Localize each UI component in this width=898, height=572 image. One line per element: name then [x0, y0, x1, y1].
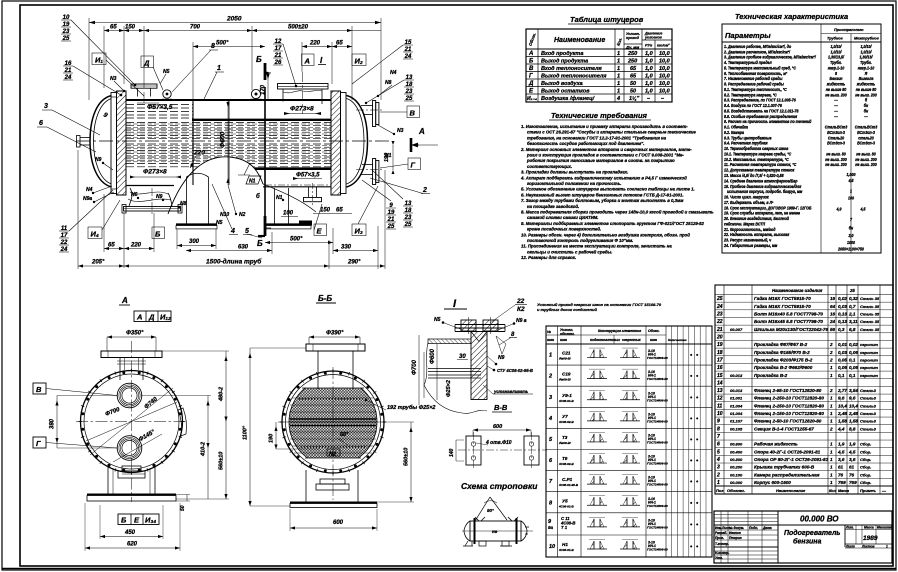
- svg-text:50: 50: [630, 89, 636, 95]
- svg-text:N1: N1: [249, 179, 256, 185]
- right top stacks: [404, 40, 412, 60]
- svg-text:Разраб.: Разраб.: [715, 531, 727, 535]
- svg-text:Гайка М16Х ГОСТ5915-70: Гайка М16Х ГОСТ5915-70: [754, 303, 811, 309]
- svg-text:Сталь3: Сталь3: [860, 426, 877, 431]
- left elliptical head: [90, 96, 112, 188]
- svg-text:19: 19: [717, 342, 723, 348]
- svg-text:00.200: 00.200: [730, 465, 743, 470]
- svg-text:1100°: 1100°: [243, 425, 249, 440]
- svg-text:3,6: 3,6: [849, 457, 856, 462]
- tube bundle upper rows: [126, 105, 193, 119]
- section line B through vessel (thick): [264, 87, 266, 216]
- dim F600 vertical inside: [227, 100, 229, 185]
- svg-text:1,9: 1,9: [849, 442, 856, 447]
- svg-text:0,1: 0,1: [849, 357, 856, 362]
- svg-text:Сталь3: Сталь3: [860, 403, 877, 408]
- svg-text:Технические требования: Технические требования: [551, 111, 648, 120]
- svg-text:Наименование: Наименование: [776, 488, 806, 493]
- svg-text:Количество: Количество: [668, 338, 687, 342]
- svg-text:паронит: паронит: [860, 357, 878, 362]
- svg-text:4С08-01-95-В: 4С08-01-95-В: [558, 483, 579, 487]
- svg-text:N1: N1: [385, 153, 392, 159]
- svg-text:Поз: Поз: [716, 488, 723, 493]
- svg-text:Д: Д: [528, 81, 534, 87]
- svg-text:3: 3: [717, 465, 720, 471]
- thick bottom partition line: [253, 167, 331, 170]
- svg-text:600: 600: [333, 520, 344, 526]
- weld table data rows: [548, 348, 699, 552]
- svg-text:8. Масса подгревателя сборки п: 8. Масса подгревателя сборки проводить ч…: [521, 210, 714, 215]
- svg-text:/№09-В/: /№09-В/: [558, 357, 572, 361]
- svg-text:56: 56: [830, 327, 836, 332]
- svg-text:Ду, мм: Ду, мм: [625, 45, 639, 50]
- svg-text:4: 4: [616, 96, 620, 102]
- svg-text:Техническая характеристика: Техническая характеристика: [735, 12, 848, 21]
- svg-text:Параметры: Параметры: [725, 31, 771, 40]
- svg-text:У9-1: У9-1: [562, 393, 572, 398]
- svg-text:1: 1: [830, 457, 833, 462]
- svg-text:21: 21: [716, 327, 723, 333]
- thick pass partition line: [192, 119, 331, 121]
- svg-text:С19: С19: [562, 372, 571, 377]
- svg-text:620: 620: [127, 542, 138, 548]
- G box right: [408, 158, 421, 170]
- svg-text:Болт М16х45 5.8 ГОСТ7798-70: Болт М16х45 5.8 ГОСТ7798-70: [754, 319, 823, 324]
- svg-text:на площадке заводской.: на площадке заводской.: [527, 204, 579, 209]
- view V-V (support pads): [449, 424, 547, 469]
- svg-text:паронит: паронит: [860, 365, 878, 370]
- nozzle A (big top-right): [282, 89, 284, 102]
- svg-text:Выход теплоносителя: Выход теплоносителя: [541, 74, 607, 80]
- svg-text:00.013: 00.013: [730, 388, 743, 393]
- svg-text:1: 1: [617, 81, 620, 87]
- svg-text:ВСт3сп-3: ВСт3сп-3: [857, 140, 875, 145]
- svg-text:1: 1: [830, 365, 833, 370]
- dim 300 under left support: [177, 245, 216, 247]
- svg-text:1: 1: [830, 449, 833, 454]
- svg-text:робония покрытия наносимые мат: робония покрытия наносимые материалов в …: [526, 158, 675, 163]
- funnel inside: [471, 332, 487, 342]
- svg-text:24: 24: [829, 319, 836, 324]
- svg-text:192 трубы Φ25×2: 192 трубы Φ25×2: [387, 404, 435, 411]
- svg-text:30: 30: [459, 354, 466, 360]
- svg-text:условное: условное: [644, 36, 662, 40]
- svg-text:Выход воздуха: Выход воздуха: [541, 81, 583, 87]
- svg-text:0,06: 0,06: [838, 365, 847, 370]
- svg-text:4: 4: [716, 457, 720, 463]
- svg-text:N6: N6: [131, 192, 138, 198]
- svg-text:N2: N2: [239, 212, 246, 218]
- svg-text:769: 769: [849, 480, 857, 485]
- tube lines left: [428, 369, 481, 379]
- svg-text:18: 18: [717, 350, 723, 356]
- svg-text:N5: N5: [163, 69, 170, 75]
- svg-text:А: А: [418, 127, 425, 136]
- right saddle support: [274, 188, 276, 224]
- main circle rings: [81, 371, 183, 473]
- svg-text:4,5: 4,5: [837, 449, 845, 454]
- svg-text:Таблица штуцеров: Таблица штуцеров: [570, 15, 644, 24]
- svg-text:ГОСТ14806-80: ГОСТ14806-80: [647, 419, 668, 423]
- svg-text:11: 11: [717, 403, 722, 409]
- svg-text:поставочной контроль подруглив: поставочной контроль подругливания Ф 10"…: [527, 238, 633, 243]
- svg-text:4. Аппарат подбергать гидравли: 4. Аппарат подбергать гидравлическому ис…: [520, 175, 687, 180]
- svg-text:№ докум.: № докум.: [729, 526, 744, 530]
- svg-text:Болт М16х40 5.8 ГОСТ7798-70: Болт М16х40 5.8 ГОСТ7798-70: [754, 312, 823, 317]
- thick bottom sheet line: [2, 568, 896, 570]
- side tab: [178, 408, 186, 436]
- svg-text:0,02: 0,02: [849, 342, 858, 347]
- svg-text:4С08-02-В: 4С08-02-В: [558, 462, 575, 466]
- bolt ticks ring: [78, 369, 184, 475]
- svg-text:шва: шва: [547, 338, 554, 342]
- svg-text:2,48: 2,48: [837, 411, 847, 416]
- N1 parallelogram label: [246, 176, 261, 184]
- bolt heads hatched: [461, 320, 476, 331]
- svg-text:9. Материалы подбираемых элеме: 9. Материалы подбираемых элементов стопо…: [521, 221, 705, 226]
- svg-text:220: 220: [309, 41, 321, 47]
- svg-text:Межтрубное: Межтрубное: [854, 37, 879, 41]
- svg-text:22: 22: [716, 319, 723, 325]
- svg-text:410-2: 410-2: [201, 442, 207, 457]
- svg-text:Сталь3: Сталь3: [860, 411, 877, 416]
- svg-text:Прокладка Ф87/Ф57 В-2: Прокладка Ф87/Ф57 В-2: [754, 342, 808, 347]
- diagonal diameter leaders: [90, 388, 173, 455]
- dim 2050 top: [89, 22, 381, 24]
- svg-text:65: 65: [336, 41, 343, 47]
- svg-text:Т.контр.: Т.контр.: [715, 542, 729, 546]
- svg-text:2: 2: [422, 187, 427, 194]
- svg-text:А: А: [136, 313, 142, 322]
- svg-text:2: 2: [829, 357, 833, 362]
- svg-text:8,8: 8,8: [849, 426, 856, 431]
- svg-text:17: 17: [717, 357, 723, 363]
- svg-text:Сталь3: Сталь3: [860, 396, 877, 401]
- svg-text:шва: шва: [650, 338, 657, 342]
- svg-text:4,4: 4,4: [837, 426, 845, 431]
- svg-text:500°: 500°: [290, 237, 303, 243]
- svg-text:Сталь 35: Сталь 35: [860, 312, 880, 317]
- svg-text:Сталь3: Сталь3: [860, 388, 877, 393]
- svg-text:1,58: 1,58: [838, 419, 847, 424]
- svg-text:Д: Д: [148, 313, 155, 322]
- svg-text:140: 140: [449, 448, 455, 457]
- svg-text:0,05: 0,05: [838, 357, 847, 362]
- center cross: [76, 421, 187, 423]
- svg-text:И₂: И₂: [355, 57, 363, 66]
- svg-text:Обозн.: Обозн.: [648, 329, 660, 333]
- B E I34 box: [118, 514, 159, 525]
- svg-text:И₁₋₄: И₁₋₄: [527, 96, 537, 102]
- svg-text:Лит.: Лит.: [845, 526, 854, 530]
- svg-text:1,0: 1,0: [645, 59, 653, 65]
- svg-text:Сбор.: Сбор.: [860, 465, 871, 470]
- svg-text:Вход теплоносителя: Вход теплоносителя: [541, 66, 603, 72]
- svg-text:2050×1100×750: 2050×1100×750: [837, 246, 865, 251]
- technical characteristics table: [722, 12, 881, 253]
- svg-text:13: 13: [717, 388, 723, 394]
- svg-text:Наименование изделия: Наименование изделия: [772, 288, 823, 293]
- svg-text:4: 4: [230, 228, 235, 235]
- dim 205 left / 290 right: [78, 265, 124, 267]
- svg-text:1: 1: [830, 442, 833, 447]
- lower nozzle circles: [117, 436, 142, 461]
- svg-text:1: 1: [217, 65, 221, 72]
- dim row3: 500 220 65: [193, 46, 265, 48]
- svg-text:ГОСТ14806-80: ГОСТ14806-80: [647, 548, 668, 552]
- revision smudges: [715, 526, 772, 560]
- svg-text:—: —: [863, 114, 868, 119]
- bottom-left reducer nozzle: [129, 188, 132, 206]
- svg-text:4,5: 4,5: [860, 206, 867, 211]
- svg-text:Сбор.: Сбор.: [860, 457, 871, 462]
- dim 1100 left: [249, 348, 251, 506]
- svg-text:769: 769: [838, 480, 846, 485]
- dim 380 left: [56, 396, 58, 449]
- svg-text:ГОСТ14806-80: ГОСТ14806-80: [647, 462, 668, 466]
- svg-text:Н1: Н1: [562, 542, 568, 547]
- svg-text:00.105: 00.105: [730, 426, 743, 431]
- dim 560+-10 right: [410, 422, 412, 502]
- svg-text:N8: N8: [385, 80, 392, 86]
- middle dark band: [290, 418, 376, 420]
- nozzle table (Tablica shtucerov): [526, 15, 672, 102]
- svg-text:Пространство: Пространство: [834, 28, 864, 32]
- svg-text:61: 61: [849, 465, 855, 470]
- svg-text:00.000: 00.000: [730, 480, 743, 485]
- svg-text:N9: N9: [95, 157, 102, 163]
- lifting eye 2: [251, 89, 260, 98]
- svg-text:0,32: 0,32: [849, 296, 858, 301]
- svg-text:Φ57×3,5: Φ57×3,5: [147, 104, 173, 111]
- svg-text:А: А: [528, 51, 533, 57]
- title block (stamp): [714, 511, 894, 563]
- shell bottom: [126, 185, 174, 187]
- svg-text:В: В: [36, 385, 42, 394]
- svg-text:N4: N4: [86, 187, 93, 193]
- svg-text:Вход продукта: Вход продукта: [541, 51, 583, 57]
- top flange: [101, 351, 162, 358]
- svg-text:65: 65: [110, 25, 117, 31]
- svg-text:700: 700: [190, 25, 201, 31]
- svg-text:N5: N5: [434, 317, 441, 323]
- svg-text:50: 50: [180, 505, 186, 511]
- svg-text:380: 380: [50, 418, 56, 429]
- svg-text:16: 16: [830, 296, 836, 301]
- svg-text:–: –: [647, 96, 650, 102]
- svg-text:10,4: 10,4: [849, 403, 858, 408]
- dim 190: [275, 422, 277, 449]
- svg-text:Масса: Масса: [864, 526, 874, 530]
- svg-text:3,54: 3,54: [849, 388, 858, 393]
- svg-text:01.107: 01.107: [730, 419, 743, 424]
- svg-text:14: 14: [717, 380, 723, 386]
- svg-text:3: 3: [549, 395, 552, 401]
- svg-text:соответствующих.: соответствующих.: [527, 164, 572, 169]
- svg-text:4: 4: [548, 416, 552, 422]
- sling lines: [475, 497, 507, 521]
- svg-text:480-2: 480-2: [219, 387, 225, 402]
- bottom right stacks: [387, 203, 395, 230]
- dim 170 vertical: [267, 77, 269, 100]
- svg-text:2: 2: [548, 374, 552, 380]
- column lines: [557, 326, 559, 557]
- svg-text:00.007: 00.007: [730, 327, 743, 332]
- svg-text:Фланец 2-65-10 ГОСТ12820-80: Фланец 2-65-10 ГОСТ12820-80: [754, 388, 822, 393]
- bottom left stack 11/17/22/24: [60, 226, 68, 253]
- svg-text:64: 64: [830, 304, 836, 309]
- svg-text:обознач.: обознач.: [560, 332, 575, 336]
- svg-text:Корпус 600-1600: Корпус 600-1600: [754, 480, 791, 485]
- svg-text:Крышка трубчатки 600-В: Крышка трубчатки 600-В: [754, 464, 815, 470]
- saddle bell mask: [168, 157, 263, 214]
- svg-text:Б: Б: [121, 516, 127, 525]
- bottom support: [305, 470, 307, 502]
- svg-text:Сталь3: Сталь3: [860, 419, 877, 424]
- left axis stub flange: [77, 136, 81, 148]
- svg-text:ГОСТ14806-80: ГОСТ14806-80: [647, 377, 668, 381]
- svg-text:бензина: бензина: [793, 538, 822, 546]
- svg-text:150: 150: [125, 25, 136, 31]
- svg-text:100: 100: [283, 211, 294, 217]
- baffle verticals: [192, 100, 194, 185]
- tube row dashes: [289, 398, 377, 453]
- right elliptical head: [347, 96, 368, 188]
- svg-text:1,58: 1,58: [849, 419, 858, 424]
- svg-text:Опора ОР 80-2Г-1 ОСТ26-2091-81: Опора ОР 80-2Г-1 ОСТ26-2091-81: [754, 457, 829, 462]
- svg-text:ствии с ОСТ 26.291-87 "Сосуды: ствии с ОСТ 26.291-87 "Сосуды и аппараты…: [527, 130, 696, 135]
- svg-text:Подогреватель: Подогреватель: [784, 529, 840, 537]
- svg-text:0,7: 0,7: [849, 304, 856, 309]
- svg-text:смазкой слоями смазки ЦИАТИМ.: смазкой слоями смазки ЦИАТИМ.: [527, 215, 598, 220]
- svg-text:16: 16: [830, 312, 836, 317]
- svg-text:2: 2: [829, 426, 833, 431]
- bottom flange: [122, 466, 141, 471]
- svg-text:4,9: 4,9: [836, 206, 843, 211]
- svg-text:330: 330: [341, 245, 352, 251]
- nozzle D (top-left): [137, 88, 139, 97]
- svg-text:Кол: Кол: [829, 488, 837, 493]
- svg-text:00.013: 00.013: [730, 373, 743, 378]
- svg-text:5: 5: [245, 228, 249, 235]
- svg-text:6: 6: [39, 120, 43, 127]
- svg-text:N9 а: N9 а: [516, 318, 527, 324]
- svg-text:3. Прокладки должны выступать: 3. Прокладки должны выступать на проклад…: [521, 170, 628, 175]
- svg-text:22: 22: [516, 298, 525, 305]
- svg-text:N10: N10: [220, 212, 229, 218]
- svg-text:170: 170: [261, 84, 267, 95]
- svg-text:25: 25: [849, 288, 855, 293]
- merged values lower: [836, 171, 867, 251]
- svg-text:Сталь 35: Сталь 35: [860, 296, 880, 301]
- svg-text:3: 3: [44, 103, 48, 110]
- svg-text:290°: 290°: [347, 260, 361, 266]
- svg-text:не выш. 200: не выш. 200: [825, 162, 847, 167]
- svg-text:10,4: 10,4: [838, 403, 847, 408]
- svg-text:76: 76: [849, 472, 855, 477]
- svg-text:Б: Б: [155, 230, 161, 239]
- svg-text:кроме посадочных поверхностей.: кроме посадочных поверхностей.: [527, 227, 601, 232]
- svg-text:24. Габаритные размеры, мм: 24. Габаритные размеры, мм: [723, 243, 777, 248]
- right tube sheet: [331, 91, 341, 195]
- centerline axis: [76, 140, 392, 142]
- nozzle G (right lower): [362, 164, 373, 166]
- svg-text:Выход продукта: Выход продукта: [541, 59, 588, 65]
- svg-text:2. Материал основных элементов: 2. Материал основных элементов аппарата …: [520, 147, 692, 152]
- svg-text:Утв.: Утв.: [715, 556, 723, 560]
- svg-text:Φ390°: Φ390°: [326, 331, 344, 337]
- svg-text:4,5: 4,5: [848, 177, 855, 182]
- svg-text:N3: N3: [397, 128, 404, 134]
- svg-text:Фланец 2-150-10 ГОСТ12820-80: Фланец 2-150-10 ГОСТ12820-80: [754, 411, 824, 416]
- svg-text:8: 8: [717, 426, 720, 432]
- dim F600: [436, 344, 438, 400]
- left saddle support: [186, 177, 188, 224]
- svg-text:N4: N4: [390, 70, 397, 76]
- svg-text:Фланец 2-250-10 ГОСТ12820-80: Фланец 2-250-10 ГОСТ12820-80: [754, 396, 824, 401]
- svg-text:безопасность сосудов работающи: безопасность сосудов работающих под давл…: [527, 141, 644, 146]
- svg-text:5: 5: [717, 449, 720, 455]
- svg-text:А: А: [304, 57, 310, 66]
- bottom dims row1: [104, 248, 154, 250]
- svg-text:№: №: [547, 330, 551, 334]
- section B marks: [264, 63, 267, 80]
- svg-text:7. Зазор между трубами болтовы: 7. Зазор между трубами болтовым, уборка …: [521, 198, 684, 203]
- svg-text:0,13: 0,13: [838, 312, 847, 317]
- svg-text:шва: шва: [560, 338, 567, 342]
- svg-text:Н.контр.: Н.контр.: [715, 551, 729, 555]
- svg-text:N9а: N9а: [83, 196, 92, 202]
- svg-text:ГОСТ14806-80: ГОСТ14806-80: [647, 398, 668, 402]
- svg-text:Φ700: Φ700: [412, 359, 418, 375]
- I4 box bottom left: [88, 227, 102, 239]
- svg-text:1: 1: [850, 188, 852, 193]
- break line: [424, 343, 487, 413]
- svg-text:150: 150: [320, 208, 331, 214]
- B section bottom foot: [258, 235, 265, 237]
- label box A D I12: [134, 311, 171, 322]
- svg-text:300: 300: [189, 239, 200, 245]
- technical characteristics table body text: [723, 44, 878, 252]
- svg-text:1¼": 1¼": [629, 96, 640, 102]
- svg-text:ГОСТ14806-80: ГОСТ14806-80: [647, 483, 668, 487]
- svg-text:4С08-01-В: 4С08-01-В: [558, 504, 575, 508]
- svg-text:Сталь 35: Сталь 35: [860, 319, 880, 324]
- svg-text:N5: N5: [216, 220, 223, 226]
- svg-text:1: 1: [830, 419, 833, 424]
- boxes bottom right: [314, 224, 327, 236]
- svg-text:1: 1: [830, 472, 833, 477]
- left tube sheet: [117, 91, 127, 195]
- svg-text:ВСт3сп-3: ВСт3сп-3: [827, 140, 845, 145]
- svg-text:N2: N2: [329, 452, 336, 458]
- svg-text:9,6: 9,6: [849, 396, 856, 401]
- svg-text:Обознач.: Обознач.: [727, 488, 745, 493]
- svg-text:паронит: паронит: [860, 342, 878, 347]
- svg-text:Г: Г: [529, 74, 533, 80]
- base plate: [87, 494, 176, 496]
- svg-text:Φ57×3,5: Φ57×3,5: [296, 173, 320, 179]
- svg-text:8: 8: [211, 43, 215, 50]
- svg-text:Масса: Масса: [838, 489, 849, 493]
- svg-text:Φ25×2: Φ25×2: [446, 380, 452, 397]
- top flange: [306, 344, 365, 351]
- svg-text:ГОСТ14806-80: ГОСТ14806-80: [647, 441, 668, 445]
- specification table data rows: [715, 288, 893, 493]
- svg-text:Фланец 2-250-10 ГОСТ12820-80: Фланец 2-250-10 ГОСТ12820-80: [754, 403, 824, 408]
- svg-text:Б: Б: [257, 239, 263, 248]
- values column 1: [825, 44, 848, 168]
